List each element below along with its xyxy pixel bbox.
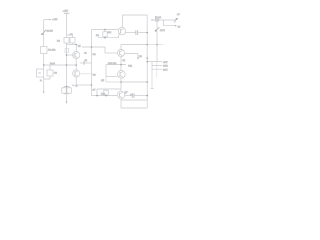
wire output rail: [146, 15, 148, 108]
svg-text:R6: R6: [93, 75, 97, 77]
svg-text:1k: 1k: [123, 60, 126, 62]
svg-text:1n: 1n: [84, 53, 87, 55]
svg-text:GND: GND: [163, 66, 168, 68]
svg-text:+42V: +42V: [63, 11, 69, 13]
diode D1: [41, 30, 46, 35]
label IN dash: [39, 72, 41, 74]
wire C1 to rail: [138, 32, 148, 34]
svg-text:C2: C2: [54, 73, 58, 75]
arrow left end: [151, 19, 153, 21]
supply flag VCC2 bar: [64, 12, 70, 14]
port IN box: [37, 69, 44, 77]
wire V5 rail lower: [156, 31, 158, 62]
wire R7 stem: [104, 30, 106, 38]
svg-text:F1 2A: F1 2A: [155, 16, 161, 19]
capacitor C3 box: [70, 38, 75, 44]
svg-text:R10 100: R10 100: [108, 63, 117, 65]
wire V2 rail top: [66, 13, 68, 37]
transistor Q6: [92, 82, 132, 108]
svg-text:R8: R8: [93, 54, 97, 56]
wire pair1 branch: [67, 35, 73, 45]
wire emitter bus y82: [121, 81, 147, 83]
flag up-right arrow: [174, 18, 178, 23]
svg-text:C7: C7: [93, 90, 97, 92]
wire driver bus: [106, 64, 126, 66]
capacitor branch C0 wire: [44, 65, 50, 79]
svg-text:33k: 33k: [108, 32, 112, 34]
transistor Q4: [105, 45, 138, 65]
capacitor C0 box: [47, 70, 53, 76]
net flag NFB arrow: [71, 85, 75, 87]
wire C2 to rail: [134, 95, 147, 97]
svg-text:R9: R9: [96, 35, 100, 37]
wire R12 stem: [105, 89, 107, 90]
wire supply stub top-left: [44, 19, 50, 21]
wire V1 rail upper: [43, 20, 45, 47]
wire top right supply: [153, 19, 177, 21]
svg-text:input: input: [50, 62, 55, 65]
resistor R12: [104, 90, 108, 95]
svg-text:R1 22k: R1 22k: [48, 50, 56, 52]
wire pair2 bottom: [64, 93, 69, 101]
ground arrow G1: [43, 92, 45, 94]
svg-text:+42V: +42V: [52, 19, 58, 21]
wire input line: [44, 64, 76, 66]
wire Q1 emitter tap y63: [80, 62, 92, 64]
svg-text:D2 Z: D2 Z: [160, 30, 165, 32]
wire VAS emitter line: [98, 37, 119, 39]
arrow on rail: [146, 58, 148, 60]
resistor R5: [62, 88, 66, 93]
wire base branch: [97, 89, 121, 96]
diode D2: [155, 27, 160, 31]
transistor Q3 VAS: [118, 15, 135, 38]
svg-text:C6: C6: [139, 56, 143, 58]
ground arrow G2: [66, 102, 68, 104]
node dot fuse: [155, 19, 158, 21]
svg-text:Q5: Q5: [101, 80, 105, 82]
wire emitter loop: [121, 100, 147, 108]
wire bus y44.5: [121, 44, 147, 46]
transistor Q5: [106, 65, 125, 82]
wire aux branch: [164, 20, 176, 26]
wire terminal ladder: [147, 62, 162, 70]
svg-text:in: in: [40, 80, 42, 82]
svg-text:R3: R3: [57, 41, 61, 43]
svg-text:D1 ZD: D1 ZD: [47, 31, 54, 33]
svg-text:OUT: OUT: [163, 62, 168, 64]
wire V1 rail mid: [43, 54, 45, 70]
svg-text:fb: fb: [76, 85, 79, 87]
svg-text:+V: +V: [177, 14, 180, 16]
svg-text:C9: C9: [130, 94, 134, 96]
junction dots: [43, 29, 158, 97]
transistor Q2: [73, 65, 92, 85]
wire V1 rail lower: [43, 77, 45, 92]
wire VAS collector loop: [122, 14, 147, 16]
wire zobel branch: [151, 69, 153, 88]
wire collector bus: [67, 44, 77, 46]
svg-text:R11: R11: [128, 65, 133, 67]
svg-text:0V: 0V: [178, 27, 181, 29]
capacitor C2: [132, 93, 134, 98]
resistor R1: [41, 47, 48, 54]
capacitor C5 box: [67, 88, 71, 93]
wire V2 rail mid: [66, 45, 68, 87]
wire V4 feedback rail: [91, 30, 93, 96]
wire V5 rail: [156, 20, 158, 28]
wire pair2 top: [64, 87, 69, 88]
wire Q4 base path: [82, 47, 105, 53]
svg-text:1k: 1k: [85, 60, 88, 62]
resistor R4 small: [65, 49, 69, 53]
value labels: [40, 11, 181, 97]
svg-text:Q7: Q7: [125, 92, 129, 94]
node VP1 arrow: [50, 19, 52, 21]
resistor R7: [103, 32, 107, 37]
arrow end aux: [175, 25, 177, 27]
resistor R3: [64, 38, 69, 44]
capacitor C1 miller: [136, 30, 138, 35]
svg-text:SPK: SPK: [163, 69, 168, 71]
wire bias top: [92, 29, 119, 31]
diode D3 small: [137, 58, 139, 60]
svg-text:Q1: Q1: [78, 46, 82, 48]
wire stem x106: [105, 65, 107, 77]
capacitor C4 tick: [83, 61, 85, 65]
transistor Q1: [67, 45, 80, 66]
